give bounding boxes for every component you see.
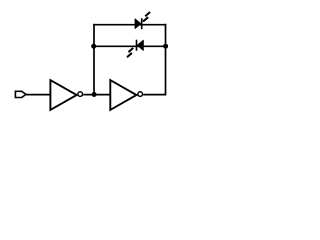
- input terminal J1: [15, 91, 26, 97]
- wire J1 to U1 input: [26, 94, 51, 96]
- inverter U2: [110, 80, 142, 110]
- wire left vertical: [93, 24, 95, 95]
- wire middle rail: [94, 45, 166, 47]
- wire U2 output to right corner: [143, 94, 166, 96]
- wire right vertical: [165, 24, 167, 95]
- junction dot right middle: [163, 44, 168, 49]
- LED D1 (top, pointing right): [135, 12, 150, 29]
- wire U1 output to node A: [83, 94, 110, 96]
- wire top rail: [93, 24, 166, 26]
- LED D2 (bottom, pointing left): [127, 40, 143, 58]
- node A junction dot: [92, 92, 97, 97]
- inverter U1: [50, 80, 82, 110]
- junction dot left middle: [91, 44, 96, 49]
